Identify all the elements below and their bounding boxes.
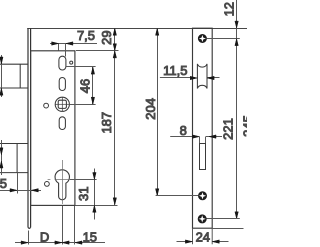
deadbolt slot in strike plate (200, 144, 206, 170)
dimension line D and 15 at bottom of lock (15, 242, 105, 244)
dimension 8 (170, 137, 222, 144)
label 204 (143, 98, 158, 120)
cylinder centerlines (48, 160, 70, 204)
cut-off latch dimension at left image edge (1, 55, 3, 97)
small hole beside oval slot (70, 61, 73, 64)
extension line from middle screw to 204 dimension (156, 195, 199, 197)
dimension 31 (70, 169, 97, 220)
dimension 187 (76, 51, 118, 205)
svg-text:31: 31 (76, 187, 91, 201)
screw top with cross recess (198, 34, 206, 42)
svg-text:8: 8 (180, 123, 187, 138)
strike plate outline (193, 28, 213, 228)
label 12 (222, 2, 237, 16)
label 221 (220, 118, 235, 140)
lock case outline (31, 51, 75, 206)
extension line from top screw (207, 38, 240, 40)
dimension 204 (157, 29, 159, 196)
svg-text:221: 221 (220, 118, 235, 140)
label 31 (76, 187, 91, 201)
dimension 46 (66, 67, 95, 105)
extension line of deadbolt face for 5 dimension (17, 173, 19, 194)
dimension 11,5 (160, 77, 220, 79)
svg-text:187: 187 (99, 112, 114, 134)
small hole left of cylinder (45, 182, 50, 187)
svg-text:204: 204 (143, 98, 158, 120)
svg-text:15: 15 (83, 229, 97, 244)
dimension 29 (76, 29, 119, 51)
capsule hole below hub (59, 117, 65, 130)
plate bottom extension to right (212, 228, 243, 230)
svg-text:D: D (40, 229, 49, 244)
dimension 5 (cut off at left edge) (0, 190, 41, 192)
dimension 12 (236, 0, 238, 219)
svg-text:7,5: 7,5 (77, 28, 95, 43)
svg-text:24: 24 (196, 229, 210, 244)
screw middle with cross recess (198, 192, 206, 200)
label 29 (99, 30, 114, 44)
wire top extension line shared by lock faceplate top and strike plate top (27, 28, 247, 30)
svg-text:15: 15 (0, 176, 7, 191)
svg-text:12: 12 (222, 2, 237, 16)
svg-text:11,5: 11,5 (163, 63, 187, 78)
svg-text:46: 46 (78, 79, 93, 93)
svg-text:29: 29 (99, 30, 114, 44)
hub with square follower (55, 97, 69, 111)
deadbolt protruding left through faceplate (0, 144, 28, 173)
bottom extension lines of lock (29, 206, 75, 245)
roller spool in strike plate (197, 64, 207, 89)
label 245 (cut off at right image edge) (241, 115, 256, 137)
svg-text:245: 245 (241, 115, 247, 137)
oval slot at faceplate top (59, 56, 66, 70)
dimension 24 (177, 228, 229, 244)
capsule hole above hub (59, 78, 65, 91)
euro profile cylinder hole (55, 170, 69, 200)
faceplate of lock (left drawing) (28, 28, 31, 228)
dimension 7,5 (50, 44, 97, 57)
extension line from bottom screw to 221 dimension (207, 218, 240, 220)
latch bolt protruding left through faceplate (0, 64, 28, 88)
label 187 (99, 112, 114, 134)
dimension 221 (235, 212, 238, 219)
case bottom extension to 187/31 dimensions (76, 205, 118, 207)
label 46 (78, 79, 93, 93)
cut-off deadbolt dimension arrows at left image edge (1, 140, 3, 175)
small hole left of hub (44, 103, 49, 108)
screw bottom with cross recess (198, 215, 206, 223)
